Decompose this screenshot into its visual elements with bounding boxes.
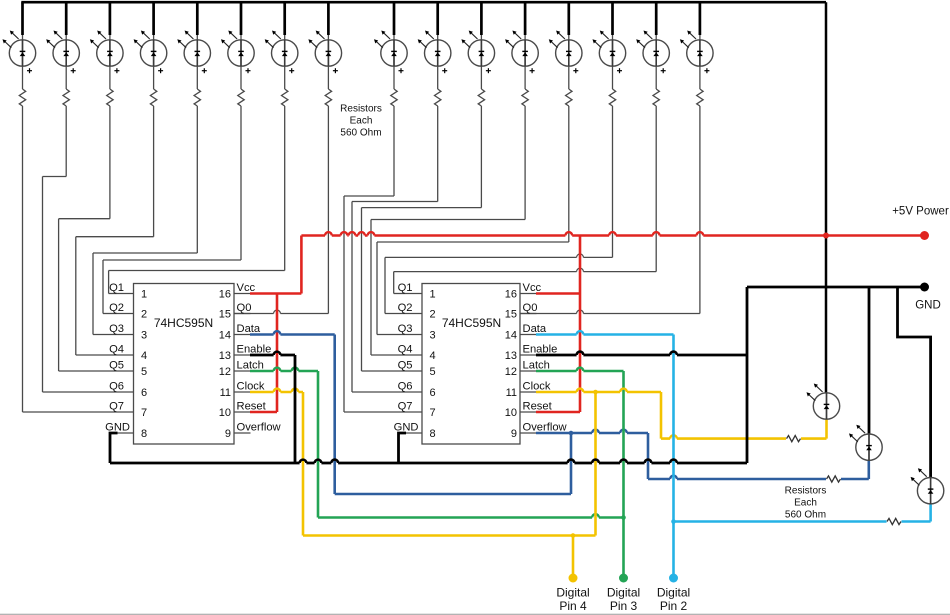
svg-text:11: 11 (506, 387, 517, 399)
svg-text:8: 8 (430, 428, 436, 440)
svg-text:Pin 2: Pin 2 (660, 599, 688, 613)
svg-text:Pin 4: Pin 4 (559, 599, 587, 613)
svg-text:Q0: Q0 (523, 302, 538, 314)
svg-text:4: 4 (141, 350, 147, 362)
svg-text:Q7: Q7 (109, 401, 124, 413)
svg-text:Digital: Digital (607, 586, 640, 600)
svg-text:14: 14 (505, 330, 517, 342)
svg-text:Q6: Q6 (109, 381, 124, 393)
svg-text:Clock: Clock (523, 381, 551, 393)
svg-text:Q3: Q3 (109, 323, 124, 335)
svg-text:3: 3 (430, 330, 436, 342)
svg-text:13: 13 (219, 350, 231, 362)
svg-text:Q7: Q7 (398, 401, 413, 413)
svg-text:GND: GND (915, 300, 941, 312)
svg-text:10: 10 (505, 407, 517, 419)
svg-text:Q0: Q0 (237, 302, 252, 314)
svg-text:13: 13 (505, 350, 517, 362)
svg-text:Overflow: Overflow (523, 422, 568, 434)
svg-text:Q4: Q4 (398, 344, 413, 356)
svg-text:Each: Each (794, 498, 817, 509)
svg-text:14: 14 (219, 330, 231, 342)
svg-text:15: 15 (219, 309, 231, 321)
svg-text:Vcc: Vcc (523, 282, 542, 294)
svg-text:Each: Each (350, 116, 373, 127)
svg-text:+5V Power: +5V Power (892, 206, 949, 218)
svg-text:16: 16 (505, 289, 517, 301)
svg-text:74HC595N: 74HC595N (442, 316, 501, 330)
svg-text:6: 6 (430, 387, 436, 399)
svg-text:GND: GND (394, 422, 419, 434)
svg-text:Q5: Q5 (109, 360, 124, 372)
svg-text:12: 12 (505, 366, 517, 378)
svg-text:Q2: Q2 (398, 302, 413, 314)
svg-text:5: 5 (430, 366, 436, 378)
svg-text:Q3: Q3 (398, 323, 413, 335)
svg-text:5: 5 (141, 366, 147, 378)
svg-text:6: 6 (141, 387, 147, 399)
svg-text:Resistors: Resistors (785, 486, 827, 497)
svg-text:16: 16 (219, 289, 231, 301)
svg-text:9: 9 (511, 428, 517, 440)
svg-text:Q1: Q1 (398, 282, 413, 294)
svg-text:8: 8 (141, 428, 147, 440)
svg-text:Digital: Digital (657, 586, 690, 600)
svg-text:560 Ohm: 560 Ohm (340, 128, 381, 139)
svg-text:Pin 3: Pin 3 (610, 599, 638, 613)
svg-text:GND: GND (105, 422, 130, 434)
svg-text:Enable: Enable (523, 344, 558, 356)
svg-text:Reset: Reset (237, 401, 267, 413)
svg-text:Data: Data (523, 323, 547, 335)
svg-text:560 Ohm: 560 Ohm (785, 510, 826, 521)
svg-text:Q2: Q2 (109, 302, 124, 314)
svg-text:7: 7 (430, 407, 436, 419)
svg-text:Data: Data (237, 323, 261, 335)
svg-text:12: 12 (219, 366, 231, 378)
svg-text:Q1: Q1 (109, 282, 124, 294)
svg-text:1: 1 (141, 289, 147, 301)
svg-text:Vcc: Vcc (237, 282, 256, 294)
svg-text:Digital: Digital (556, 586, 589, 600)
svg-text:2: 2 (430, 309, 436, 321)
svg-text:Q5: Q5 (398, 360, 413, 372)
svg-text:7: 7 (141, 407, 147, 419)
svg-text:Enable: Enable (237, 344, 272, 356)
svg-text:11: 11 (220, 387, 231, 399)
svg-text:Q4: Q4 (109, 344, 124, 356)
svg-text:Latch: Latch (237, 360, 264, 372)
svg-text:Reset: Reset (523, 401, 553, 413)
svg-text:9: 9 (225, 428, 231, 440)
svg-text:10: 10 (219, 407, 231, 419)
svg-text:Q6: Q6 (398, 381, 413, 393)
svg-text:3: 3 (141, 330, 147, 342)
svg-text:Latch: Latch (523, 360, 550, 372)
svg-text:2: 2 (141, 309, 147, 321)
svg-text:Clock: Clock (237, 381, 265, 393)
svg-text:4: 4 (430, 350, 436, 362)
svg-text:Resistors: Resistors (340, 104, 382, 115)
svg-text:74HC595N: 74HC595N (154, 316, 213, 330)
svg-text:1: 1 (430, 289, 436, 301)
svg-text:Overflow: Overflow (237, 422, 282, 434)
svg-text:15: 15 (505, 309, 517, 321)
